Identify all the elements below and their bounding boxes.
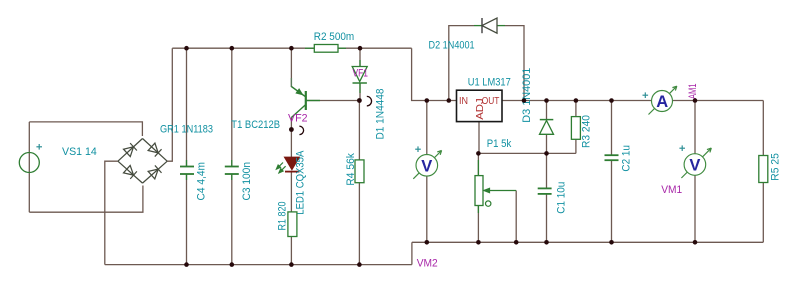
- diode D2: [474, 18, 505, 33]
- wire P1 wiper drop: [515, 191, 517, 243]
- wire VM2 branch: [426, 101, 428, 243]
- capacitor C1: [538, 188, 552, 194]
- label R2 500m: [314, 31, 354, 43]
- LED LED1: [276, 157, 299, 173]
- capacitor C4: [180, 160, 194, 180]
- potentiometer P1: [475, 176, 516, 207]
- svg-text:T1 BC212B: T1 BC212B: [231, 119, 280, 131]
- ammeter AM1: [643, 86, 677, 114]
- voltage pin VF1 arc: [367, 96, 372, 106]
- regulator U1 LM317 box: [457, 90, 503, 121]
- label C2 1u: [621, 145, 633, 172]
- wire C2 lower lead: [611, 160, 613, 242]
- svg-text:R4 56k: R4 56k: [345, 153, 357, 186]
- label GR1 1N1183: [160, 124, 213, 136]
- label D1 1N4448: [375, 89, 387, 140]
- wire D3 lower lead: [546, 134, 548, 153]
- svg-text:VS1 14: VS1 14: [62, 146, 97, 158]
- label R1 820: [277, 202, 289, 231]
- wire D1 node through R4 to lower rail: [358, 101, 360, 265]
- wire D2 right riser: [505, 26, 524, 101]
- wire lower-left ground rail: [105, 264, 412, 266]
- label VF2: [288, 113, 308, 125]
- pin label IN: [459, 95, 468, 107]
- label U1 LM317: [468, 76, 511, 88]
- diode D1: [352, 60, 367, 93]
- wire VM1 branch: [694, 101, 696, 243]
- svg-text:C2 1u: C2 1u: [621, 145, 633, 172]
- wire top positive rail: [172, 47, 411, 49]
- wire VS1 left branch: [28, 122, 30, 212]
- wire T1 base to D1 node: [306, 100, 359, 102]
- resistor R2: [305, 45, 346, 53]
- svg-text:D1 1N4448: D1 1N4448: [375, 89, 387, 140]
- wire ADJ node horizontal: [478, 152, 576, 154]
- svg-text:U1 LM317: U1 LM317: [468, 76, 511, 88]
- voltage pin VF2 arc: [299, 126, 303, 134]
- wire D2 left riser: [449, 26, 474, 101]
- wire C4 branch lower: [186, 174, 188, 265]
- svg-text:C3 100n: C3 100n: [241, 162, 253, 201]
- wire R3 branch: [575, 101, 577, 154]
- voltmeter VM1: [679, 145, 711, 178]
- capacitor C3: [225, 160, 239, 180]
- wire C3 branch lower: [231, 174, 233, 265]
- pin label OUT: [482, 95, 500, 107]
- wire LED1 to R1 to lower rail: [290, 172, 292, 265]
- svg-text:V: V: [689, 157, 700, 175]
- wire bottom ground rail: [412, 241, 763, 243]
- label R5 25: [770, 153, 782, 181]
- label AM1: [687, 84, 699, 100]
- label C4 4,4m: [196, 162, 208, 201]
- wire T1 collector to LED1: [290, 118, 292, 158]
- label VM1: [661, 184, 682, 196]
- wire VS1 bottom to bridge bottom corner: [29, 186, 143, 213]
- node VF2 junction: [289, 127, 294, 132]
- wire bridge left corner to lower-left rail: [105, 161, 118, 264]
- wire top rail drop to IN: [412, 48, 457, 100]
- svg-text:VF1: VF1: [353, 68, 369, 80]
- label VM2: [417, 258, 438, 270]
- svg-text:GR1 1N1183: GR1 1N1183: [160, 124, 213, 136]
- label C3 100n: [241, 162, 253, 201]
- label T1 BC212B: [231, 119, 280, 131]
- wire P1 branch: [477, 153, 479, 242]
- svg-text:R2 500m: R2 500m: [314, 31, 354, 43]
- svg-text:VM2: VM2: [417, 258, 438, 270]
- resistor R3: [571, 117, 580, 140]
- svg-text:R3 240: R3 240: [580, 115, 592, 148]
- label R3 240: [580, 115, 592, 148]
- resistor R1: [288, 212, 297, 237]
- wire C1 upper lead: [546, 153, 548, 188]
- pin label ADJ: [474, 98, 486, 120]
- label R4 56k: [345, 153, 357, 186]
- wire R5 branch: [762, 101, 764, 243]
- svg-text:C4 4,4m: C4 4,4m: [196, 162, 208, 201]
- label D3 1N4001: [521, 68, 533, 123]
- voltage source VS1: [19, 144, 42, 173]
- wire C1 lower lead: [546, 194, 548, 242]
- svg-text:C1 10u: C1 10u: [556, 182, 568, 214]
- svg-text:A: A: [656, 93, 668, 111]
- label LED1 CQX35A: [295, 150, 307, 215]
- resistor R5: [759, 156, 768, 183]
- svg-text:R1 820: R1 820: [277, 202, 289, 231]
- wire C3 branch upper: [231, 48, 233, 166]
- bridge rectifier GR1: [118, 139, 167, 184]
- node VF1 junction: [357, 98, 362, 103]
- svg-text:P1 5k: P1 5k: [487, 138, 512, 150]
- wire C4 branch upper: [186, 48, 188, 166]
- wire step between rails: [411, 242, 413, 264]
- wire D1 anode lead: [359, 48, 361, 66]
- svg-text:VM1: VM1: [661, 184, 682, 196]
- wire T1 emitter branch: [290, 48, 292, 87]
- svg-text:IN: IN: [459, 95, 468, 107]
- label VS1 14: [62, 146, 97, 158]
- svg-text:V: V: [421, 157, 432, 175]
- svg-text:D2 1N4001: D2 1N4001: [429, 40, 475, 52]
- wire D3 upper lead: [546, 101, 548, 121]
- voltmeter VM2: [413, 146, 441, 178]
- diode D3: [540, 120, 554, 135]
- svg-text:R5 25: R5 25: [770, 153, 782, 181]
- resistor R4: [355, 160, 364, 183]
- wire D1 cathode to node: [359, 83, 361, 101]
- svg-text:LED1 CQX35A: LED1 CQX35A: [295, 150, 307, 215]
- svg-text:ADJ: ADJ: [474, 98, 486, 120]
- wire C2 upper lead: [611, 101, 613, 156]
- wire ADJ pin drop: [478, 122, 480, 154]
- svg-text:AM1: AM1: [687, 84, 699, 100]
- wire OUT rail: [502, 100, 763, 102]
- label VF1: [353, 68, 369, 80]
- capacitor C2: [605, 155, 619, 160]
- wire bridge right corner to top rail: [167, 48, 172, 161]
- label D2 1N4001: [429, 40, 475, 52]
- wire VS1 top to bridge top corner: [29, 122, 142, 136]
- label C1 10u: [556, 182, 568, 214]
- svg-text:VF2: VF2: [288, 113, 308, 125]
- transistor T1: [291, 87, 320, 118]
- label P1 5k: [487, 138, 512, 150]
- svg-text:D3 1N4001: D3 1N4001: [521, 68, 533, 123]
